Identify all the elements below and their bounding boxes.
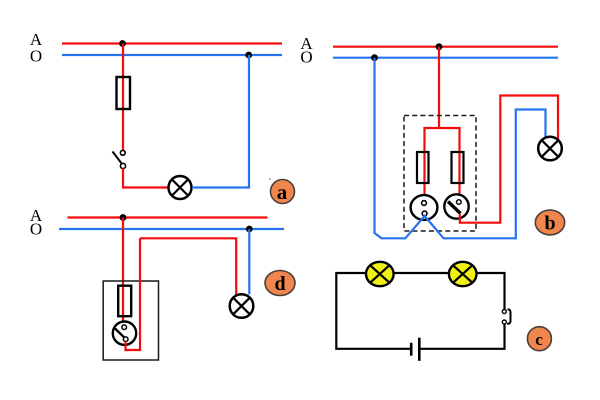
switch S4 (circuit c) xyxy=(502,309,510,324)
lamp L5 yellow (circuit c) xyxy=(449,262,477,286)
svg-text:d: d xyxy=(274,273,285,295)
battery B1 (circuit c) xyxy=(411,338,419,361)
lamp L4 yellow (circuit c) xyxy=(366,262,394,286)
lamp L3 (circuit d) xyxy=(230,294,254,318)
lamp L2 (circuit b) xyxy=(538,137,562,161)
svg-text:c: c xyxy=(535,330,543,349)
junction on neutral line (circuit d) xyxy=(246,226,253,233)
lamp L1 (circuit a) xyxy=(169,176,192,199)
wire switch to lamp phase (circuit b) xyxy=(460,96,558,223)
wire switch to battery (circuit c) xyxy=(420,324,505,349)
wire top right and right side down to switch (circuit c) xyxy=(477,273,505,310)
label c (orange badge) xyxy=(527,327,551,351)
wire phase drop (circuit a) xyxy=(122,44,124,151)
wire switch out and up (circuit d) xyxy=(126,238,141,350)
wire loop (circuit c) xyxy=(336,273,410,349)
wire neutral line O (circuit d) xyxy=(59,228,284,230)
wire neutral drop to lamp (circuit d) xyxy=(248,229,250,295)
label b (orange badge) xyxy=(535,210,564,235)
switch enclosure box (circuit d) xyxy=(103,281,158,360)
junction on phase line (circuit d) xyxy=(120,214,127,221)
wire phase drop into box (circuit b) xyxy=(438,47,440,128)
wire phase across to lamp (circuit d) xyxy=(140,238,236,295)
fuse F2 left (circuit b) xyxy=(417,152,429,183)
socket outlet (circuit b) xyxy=(411,195,438,220)
distribution box (dashed, circuit b) xyxy=(404,116,476,232)
label a (orange badge) xyxy=(271,180,295,205)
stray speck near label a xyxy=(269,178,271,180)
label d (orange badge) xyxy=(265,271,295,296)
wire neutral line O (circuit b) xyxy=(333,57,558,59)
svg-text:b: b xyxy=(544,213,555,235)
wire phase line A (circuit a) xyxy=(62,42,282,44)
wire phase split header (circuit b) xyxy=(425,128,460,202)
wire phase drop (circuit d) xyxy=(122,218,124,328)
svg-text:O: O xyxy=(300,48,312,67)
fuse F3 right (circuit b) xyxy=(452,152,464,183)
wire switch to lamp (circuit a) xyxy=(123,169,168,188)
wire phase line A (circuit d) xyxy=(68,216,268,218)
junction on phase line (circuit b) xyxy=(436,43,443,50)
junction on neutral line (circuit b) xyxy=(371,54,378,61)
wire lamp to neutral (circuit a) xyxy=(192,55,249,188)
junction on phase line (circuit a) xyxy=(119,40,126,47)
junction on neutral line (circuit a) xyxy=(245,52,252,59)
wire neutral run (circuit b) xyxy=(375,58,546,239)
switch S1 (circuit a) xyxy=(113,150,126,168)
wire top middle segment (circuit c) xyxy=(394,272,449,274)
fuse F4 (circuit d) xyxy=(118,286,131,317)
svg-text:O: O xyxy=(30,47,42,66)
svg-text:a: a xyxy=(277,180,288,204)
svg-text:O: O xyxy=(30,220,42,239)
wire phase line A (circuit b) xyxy=(333,46,558,48)
fuse F1 (circuit a) xyxy=(117,77,131,109)
rotary switch S2 (circuit b) xyxy=(444,194,468,218)
wire neutral line O (circuit a) xyxy=(62,54,282,56)
rotary switch S3 (circuit d) xyxy=(113,322,136,345)
